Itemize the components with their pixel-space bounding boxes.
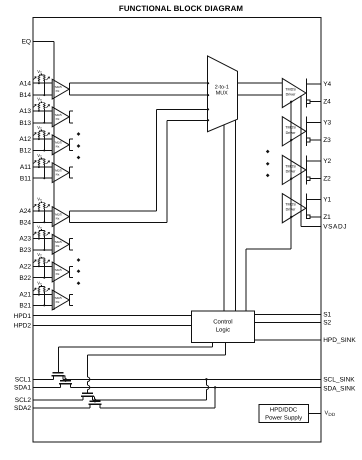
svg-text:Y1: Y1 xyxy=(323,196,331,203)
svg-text:Driver: Driver xyxy=(286,93,297,97)
svg-text:SCL1: SCL1 xyxy=(15,376,32,383)
svg-text:A24: A24 xyxy=(19,208,31,215)
svg-text:Power Supply: Power Supply xyxy=(265,414,302,421)
svg-text:SDA2: SDA2 xyxy=(14,405,31,412)
svg-text:SDA_SINK: SDA_SINK xyxy=(323,386,356,393)
svg-text:A14: A14 xyxy=(19,80,31,87)
svg-text:VSADJ: VSADJ xyxy=(323,224,347,231)
svg-text:A13: A13 xyxy=(19,108,31,115)
svg-text:MUX: MUX xyxy=(216,91,228,97)
svg-text:A11: A11 xyxy=(20,164,31,171)
svg-text:Rx: Rx xyxy=(56,300,60,304)
svg-text:HPD2: HPD2 xyxy=(14,323,32,330)
svg-text:Control: Control xyxy=(213,319,232,326)
svg-text:B21: B21 xyxy=(19,303,31,310)
svg-text:HPD1: HPD1 xyxy=(14,313,32,320)
svg-text:S1: S1 xyxy=(323,312,331,319)
svg-text:B22: B22 xyxy=(19,275,31,282)
svg-text:SCL_SINK: SCL_SINK xyxy=(323,376,355,383)
svg-text:Logic: Logic xyxy=(216,327,230,334)
svg-text:Z2: Z2 xyxy=(323,176,331,183)
svg-text:Rx: Rx xyxy=(56,173,60,177)
svg-text:Rx: Rx xyxy=(56,272,60,276)
svg-text:Y4: Y4 xyxy=(323,81,331,88)
svg-text:B13: B13 xyxy=(19,120,31,127)
svg-text:FUNCTIONAL BLOCK DIAGRAM: FUNCTIONAL BLOCK DIAGRAM xyxy=(119,4,243,13)
svg-text:DD: DD xyxy=(328,412,336,417)
svg-text:TMDS: TMDS xyxy=(285,87,296,91)
svg-text:B23: B23 xyxy=(19,247,31,254)
svg-text:Z3: Z3 xyxy=(323,137,331,144)
svg-text:Rx: Rx xyxy=(56,244,60,248)
svg-text:Rx: Rx xyxy=(56,145,60,149)
svg-text:Z1: Z1 xyxy=(323,214,331,221)
svg-text:Y3: Y3 xyxy=(323,120,331,127)
svg-text:B11: B11 xyxy=(20,175,31,182)
svg-text:A21: A21 xyxy=(19,292,31,299)
svg-text:A23: A23 xyxy=(19,236,31,243)
svg-text:HPD_SINK: HPD_SINK xyxy=(323,337,356,344)
svg-text:SCL2: SCL2 xyxy=(15,397,32,404)
svg-text:Z4: Z4 xyxy=(323,99,331,106)
svg-text:SDA1: SDA1 xyxy=(14,385,31,392)
svg-text:A22: A22 xyxy=(19,263,31,270)
svg-text:B24: B24 xyxy=(19,219,31,226)
svg-text:B12: B12 xyxy=(19,148,31,155)
svg-text:Rx: Rx xyxy=(56,117,60,121)
svg-text:Rx: Rx xyxy=(56,89,60,93)
svg-text:2-to-1: 2-to-1 xyxy=(215,84,229,90)
svg-text:A12: A12 xyxy=(19,136,31,143)
svg-text:Y2: Y2 xyxy=(323,158,331,165)
svg-text:B14: B14 xyxy=(19,92,31,99)
svg-text:Rx: Rx xyxy=(56,217,60,221)
svg-text:HPD/DDC: HPD/DDC xyxy=(270,406,298,413)
svg-text:EQ: EQ xyxy=(22,39,31,46)
svg-text:S2: S2 xyxy=(323,320,331,327)
